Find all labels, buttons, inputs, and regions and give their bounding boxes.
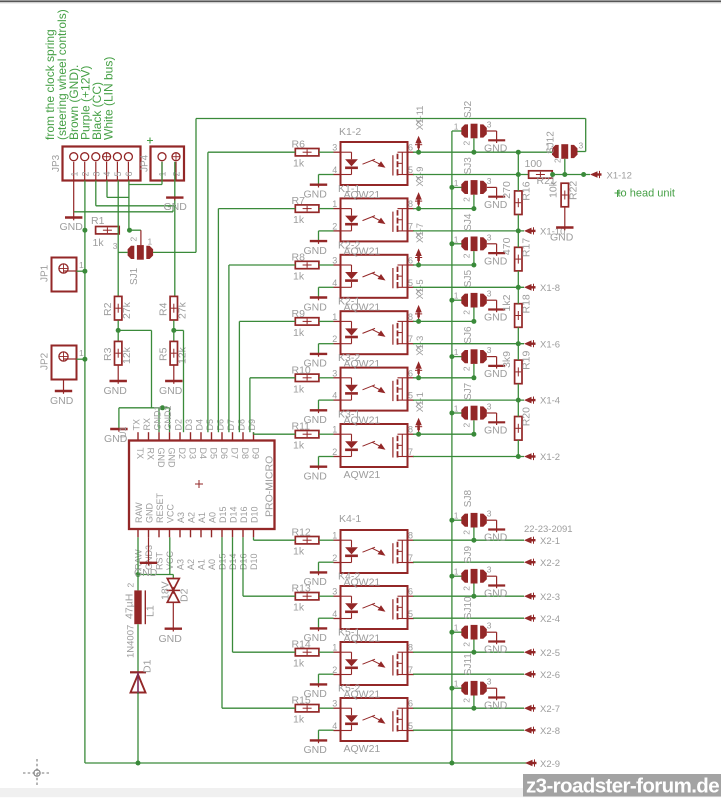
ground opto top 4 [304,409,328,426]
wire SJ12 pin2 drop [564,159,566,175]
label K2-2 [338,239,360,251]
svg-text:1k: 1k [293,158,305,170]
junction chain node 1 [516,228,521,233]
svg-text:SJ7: SJ7 [463,382,474,400]
svg-text:JP4: JP4 [140,154,151,172]
svg-text:GND: GND [304,245,328,257]
svg-text:27k: 27k [177,301,189,319]
wire SJ11 pin1 [452,687,462,689]
ground opto bottom 2 [304,683,328,700]
svg-text:R4: R4 [158,302,170,316]
svg-text:A0: A0 [207,559,217,570]
svg-text:1N4007: 1N4007 [126,625,137,658]
wire JP3 pin6 down [128,181,130,231]
svg-text:D2: D2 [174,419,184,431]
svg-text:2: 2 [462,253,472,258]
label AQW21 4 [344,358,381,370]
svg-text:R18: R18 [521,294,533,313]
ground SJ8 [484,530,508,544]
pin X1-5 [415,279,426,324]
wire RAW to VCC/D2 [138,574,173,576]
svg-text:1: 1 [332,531,337,541]
label AQW21 b3 [344,689,381,701]
junction X1-12 dot [581,172,586,177]
svg-text:GND: GND [484,700,508,712]
svg-text:GND: GND [60,221,84,233]
note text "White (LIN bus)" [102,57,116,140]
wire R21 to X1-12 [553,174,590,176]
ground opto bottom 1 [304,627,328,644]
svg-text:D8: D8 [240,448,250,460]
svg-text:2: 2 [462,642,472,647]
svg-text:GND1: GND1 [153,405,163,430]
wire feed R11 from D9 [254,432,296,434]
svg-text:A1: A1 [197,512,207,523]
svg-text:6: 6 [124,171,134,176]
svg-text:R3: R3 [102,347,114,361]
wire RAW down [137,537,139,574]
junction SJ7 bus [449,411,454,416]
svg-text:GND: GND [304,301,328,313]
wire row4 bottom [413,399,524,401]
ground SJ2 [484,140,508,154]
svg-text:A2: A2 [187,512,197,523]
svg-text:1: 1 [332,199,337,209]
wire R1 right to SJ1 pin2 [130,230,141,245]
cursor crosshair [23,759,51,787]
junction SJ6 bus [449,354,454,359]
svg-text:R20: R20 [521,407,533,426]
opto-relay K5-2 AQW21 [332,698,414,741]
svg-text:3: 3 [487,345,492,355]
junction SJ4 bus [449,241,454,246]
svg-text:K4-1: K4-1 [339,513,361,525]
wire feed R12 [254,537,296,540]
svg-text:White (LIN bus): White (LIN bus) [102,57,116,140]
svg-text:8: 8 [408,312,413,322]
svg-text:SJ8: SJ8 [463,490,474,508]
note to head unit [615,188,676,200]
svg-text:AQW21: AQW21 [344,415,381,427]
svg-text:3: 3 [487,232,492,242]
note text "Brown (GND)." [67,65,81,140]
svg-text:L1: L1 [145,605,157,617]
wire JP3 pin2 to R1 [84,181,86,231]
opto-relay K1-1 AQW21 [332,198,414,241]
svg-text:2: 2 [332,334,337,344]
pin X2-8 [524,726,560,737]
svg-text:R13: R13 [292,583,311,595]
svg-text:3: 3 [91,171,101,176]
wire SJ bus vertical [451,131,453,763]
svg-text:5: 5 [408,165,413,175]
svg-text:4: 4 [332,721,337,731]
svg-text:6: 6 [408,256,413,266]
pin X2-9 [525,759,560,770]
label AQW21 5 [344,415,381,427]
svg-text:7: 7 [408,447,413,457]
label K1-1 [338,183,360,195]
ground gnd link [104,428,128,445]
opto-relay K4-2 AQW21 [332,586,414,629]
junction chain node 4 [516,398,521,403]
svg-text:X2-9: X2-9 [540,759,560,770]
svg-text:D7: D7 [226,419,236,431]
junction SJ5 bus [449,298,454,303]
svg-text:AQW21: AQW21 [344,743,381,755]
pin X2-6 [524,670,560,681]
svg-text:A0: A0 [208,512,218,523]
junction SJ2 row [471,150,476,155]
svg-text:2: 2 [80,171,90,176]
wire SJ3 pin3 gnd [487,187,497,199]
svg-text:4: 4 [332,278,337,288]
svg-text:1k: 1k [293,602,305,614]
wire SJ7 pin1 [452,412,462,414]
wire opto pin gnd b2 [319,674,334,684]
resistor R2 [102,296,133,320]
junction X1-12 node left [516,172,521,177]
pin X1-1 [415,392,426,437]
pin X1-8 [524,283,560,294]
inductor L1 [124,583,157,625]
wire feed R10 [250,378,295,432]
ground R5 [159,380,183,397]
svg-text:GND: GND [304,744,328,756]
junction R22 top [562,172,567,177]
opto-relay K1-2 AQW21 [332,142,414,185]
svg-text:2: 2 [553,158,563,163]
svg-text:D6: D6 [219,448,229,460]
svg-text:GND: GND [145,503,155,524]
svg-text:R10: R10 [292,364,311,376]
label K2-1 [338,296,360,308]
wire row3 bottom [413,343,524,345]
opto-relay K2-1 AQW21 [332,311,414,354]
wire stub pin3 aux [74,206,173,212]
svg-text:A3: A3 [175,559,185,570]
svg-text:AQW21: AQW21 [344,302,381,314]
svg-text:SJ10: SJ10 [463,596,474,619]
top border bar [0,0,721,3]
wire opto pin gnd 5 [319,457,334,467]
junction R4/R5 [171,328,176,333]
svg-text:AQW21: AQW21 [344,189,381,201]
wire SJ6 pin1 [452,356,462,358]
svg-text:GND: GND [304,189,328,201]
wire row5 top [413,433,474,435]
junction SJ bus bottom [449,761,454,766]
wire SJ9 pin2 drop [473,584,475,597]
svg-text:3k9: 3k9 [501,351,513,368]
wire SJ1 pin3 [118,251,127,253]
svg-text:GND: GND [484,644,508,656]
wire feed R13 [243,537,295,596]
solder jumper SJ4 [454,213,492,258]
ground opto top 0 [304,184,328,201]
resistor R20 [515,400,533,456]
ground opto top 1 [304,240,328,257]
svg-text:1k: 1k [293,440,305,452]
resistor R1 [91,215,119,249]
wire browtop0 [413,539,524,541]
svg-text:D2: D2 [177,448,187,460]
svg-text:8: 8 [408,425,413,435]
pin X2-7 [524,704,560,715]
svg-text:3: 3 [487,565,492,575]
svg-text:1k: 1k [93,237,105,249]
wire node to D2 [172,575,174,579]
svg-text:AQW21: AQW21 [344,469,381,481]
ground R22 [550,227,574,244]
svg-text:R19: R19 [521,350,533,369]
svg-text:AQW21: AQW21 [344,358,381,370]
pin X1-7 [415,223,426,268]
svg-text:SJ3: SJ3 [463,157,474,175]
svg-text:U1: U1 [118,426,128,438]
svg-text:D4: D4 [198,448,208,460]
opto-relay K5-1 AQW21 [332,642,414,685]
junction chain node 5 [516,454,521,459]
junction gnd link [160,405,165,410]
svg-text:2: 2 [332,447,337,457]
svg-text:1: 1 [454,178,459,188]
svg-text:7: 7 [408,221,413,231]
svg-text:GND: GND [50,395,74,407]
svg-text:5: 5 [113,171,123,176]
junction SJ3 row [471,206,476,211]
svg-text:A2: A2 [186,559,196,570]
svg-text:AQW21: AQW21 [344,577,381,589]
resistor R16 [501,175,533,231]
wire opto pin gnd 1 [319,231,334,241]
wire to SJ12 pin3 [578,119,586,152]
pin X2-4 [524,614,560,625]
svg-text:12k: 12k [177,346,189,364]
connector JP2 [40,346,85,380]
svg-text:3: 3 [332,368,337,378]
ground SJ4 [484,253,508,267]
wire row1 bottom [413,230,524,232]
wire browbot2 [413,673,524,675]
svg-text:GND: GND [156,448,166,469]
junction SJ8 row [471,538,476,543]
svg-text:1: 1 [454,623,459,633]
svg-text:2: 2 [462,698,472,703]
svg-text:SJ9: SJ9 [463,546,474,564]
wire SJ2 pin2 drop [473,138,475,152]
svg-text:GND: GND [484,199,508,211]
wire GND2 up [169,408,171,432]
solder jumper SJ1 [113,237,153,286]
solder jumper SJ10 [454,596,492,647]
wire opto pin gnd 4 [319,400,334,410]
wire SJ10 pin3 gnd [487,632,497,644]
wire SJ2 pin1 [452,130,462,132]
svg-text:22-23-2091: 22-23-2091 [524,524,573,535]
solder jumper SJ9 [454,546,492,591]
resistor R14 [292,639,319,670]
label K5-1 [338,627,360,639]
ground R3 [104,380,128,397]
junction R21 right [550,172,555,177]
wire JP4 pin2 down [174,162,176,296]
connector JP3 [51,147,141,181]
wire row1 top [413,208,474,210]
wire JP3 pin4 [107,181,129,198]
svg-text:R14: R14 [292,639,311,651]
wire opto pin gnd 0 [319,175,334,185]
wire node to L1 [137,575,139,591]
svg-text:GND: GND [484,532,508,544]
wire opto pin gnd 3 [319,344,334,354]
resistor R21 [525,158,556,187]
svg-text:GND: GND [159,633,183,645]
pin X1-6 [524,339,560,350]
svg-text:2: 2 [462,310,472,315]
junction D1 bottom [136,761,141,766]
svg-text:D3: D3 [188,448,198,460]
svg-text:6: 6 [408,699,413,709]
svg-text:27k: 27k [121,301,133,319]
wire SJ11 pin3 gnd [487,688,497,700]
label AQW21 3 [344,302,381,314]
svg-text:D4: D4 [195,419,205,431]
ground JP4 pin2 [164,197,188,213]
wire SJ4 pin3 gnd [487,244,497,256]
svg-text:AQW21: AQW21 [344,245,381,257]
junction SJ11 bus [449,686,454,691]
wire row3 top [413,320,474,322]
note text "Black (CC)" [90,82,104,140]
svg-text:to head unit: to head unit [618,188,676,200]
svg-text:2: 2 [332,665,337,675]
connector JP1 [40,258,85,292]
wire browtop3 [413,707,524,709]
svg-text:GND: GND [159,385,183,397]
svg-text:470: 470 [501,237,513,255]
svg-text:SJ2: SJ2 [463,100,474,118]
solder jumper SJ5 [454,270,492,315]
resistor R12 [292,527,319,558]
wire feed R8 [229,265,295,432]
wire L1 to D1 [137,624,139,672]
wire SJ6 pin2 drop [473,364,475,378]
wire SJ7 pin2 drop [473,420,475,434]
svg-text:1: 1 [79,348,84,358]
wire R10 to opto [319,377,334,379]
wire R8 to opto [319,264,334,266]
svg-text:GND: GND [164,201,188,213]
svg-text:R11: R11 [292,421,311,433]
wire row4 top [413,377,474,379]
wire JP3 pin5 / SJ1-3 to R2 [117,181,119,297]
svg-text:R8: R8 [292,252,306,264]
svg-text:D5: D5 [205,419,215,431]
svg-text:5: 5 [408,391,413,401]
pin X2-3 [524,592,560,603]
resistor R22 [548,180,580,206]
svg-text:GND: GND [484,143,508,155]
svg-text:2: 2 [129,237,139,242]
svg-text:X2-1: X2-1 [540,536,560,547]
svg-text:SJ11: SJ11 [463,653,474,675]
svg-text:7: 7 [408,553,413,563]
pin X2-5 [524,648,560,659]
wire SJ1 pin1 right [153,251,196,253]
wire R9 to opto [319,320,334,322]
wire SJ5 pin1 [452,299,462,301]
wire R14 to opto [319,651,334,653]
pin X2-2 [524,558,560,569]
svg-text:7: 7 [408,334,413,344]
svg-text:GND: GND [550,232,574,244]
svg-text:R2: R2 [102,302,114,316]
svg-text:SJ4: SJ4 [463,213,474,231]
svg-text:1: 1 [454,567,459,577]
wire row2 bottom [413,286,524,288]
wire R6 to opto [319,151,334,153]
svg-text:5: 5 [408,278,413,288]
svg-text:1k: 1k [293,271,305,283]
svg-text:X2-7: X2-7 [540,704,560,715]
wire SJ9 pin3 gnd [487,576,497,588]
pin X1-3 [415,336,426,381]
svg-text:TX: TX [132,419,142,431]
svg-text:3: 3 [113,241,118,251]
ground opto top 3 [304,353,328,370]
solder jumper SJ2 [454,100,492,145]
svg-text:7: 7 [408,665,413,675]
svg-text:1: 1 [454,291,459,301]
wire SJ5 pin3 gnd [487,300,497,312]
svg-text:D7: D7 [230,448,240,460]
svg-text:X2-8: X2-8 [540,726,560,737]
svg-text:GND: GND [104,385,128,397]
wire row0 bottom [413,174,528,176]
wire browtop1 [413,595,524,597]
resistor R11 [292,421,319,452]
svg-text:SJ1: SJ1 [129,267,140,285]
junction SJ3 bus [449,185,454,190]
svg-text:A3: A3 [176,512,186,523]
svg-text:R1: R1 [91,215,105,227]
svg-text:X1-8: X1-8 [540,283,560,294]
svg-text:3: 3 [332,256,337,266]
svg-text:8: 8 [408,199,413,209]
svg-text:4: 4 [332,391,337,401]
svg-text:3: 3 [332,587,337,597]
pin X1-11 [415,106,426,155]
ground SJ5 [484,310,508,324]
svg-text:1: 1 [69,171,79,176]
junction JP2 [82,357,87,362]
resistor R9 [292,308,319,339]
wire feed R6 [208,152,295,432]
svg-text:z3-roadster-forum.de: z3-roadster-forum.de [526,775,719,798]
svg-text:D9: D9 [251,448,261,460]
resistor R4 [158,296,189,320]
pin X1-2 [524,452,560,463]
svg-text:6: 6 [408,368,413,378]
pin X1-10 [524,227,565,238]
svg-text:JP3: JP3 [51,154,62,172]
svg-text:6: 6 [408,587,413,597]
svg-text:X2-6: X2-6 [540,670,560,681]
wire SJ1 net up [195,119,197,253]
wire R13 to opto [319,595,334,597]
resistor R19 [501,344,533,400]
